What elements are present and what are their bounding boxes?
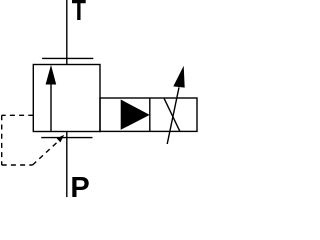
- tick: bottom port line: [41, 137, 92, 139]
- flow arrow inside valve (stem): [50, 83, 52, 132]
- throttle diagonal line: [164, 98, 180, 131]
- valve body U1 (pressure reducing valve envelope): [33, 65, 100, 132]
- svg-text:T: T: [72, 0, 86, 27]
- wire P line (pressure port line): [66, 132, 68, 198]
- adjustment arrow head: [173, 66, 184, 88]
- pilot line (dashed) horizontal upper segment: [2, 114, 34, 116]
- wire T line (tank port line): [66, 0, 68, 65]
- svg-text:P: P: [70, 172, 89, 197]
- check valve triangle (filled): [121, 100, 150, 130]
- pilot line (dashed) horizontal bottom segment: [2, 164, 33, 166]
- pilot line (dashed) vertical left segment: [1, 115, 3, 165]
- pilot line arrowhead: [57, 135, 65, 143]
- flow control valve divider: [149, 98, 151, 131]
- adjustment arrow stem: [167, 87, 179, 144]
- flow control valve body (rectangle): [100, 98, 197, 131]
- flow arrow inside valve (head): [46, 65, 57, 85]
- pilot line (dashed) diagonal segment: [33, 141, 60, 165]
- tick: top port line: [42, 57, 93, 59]
